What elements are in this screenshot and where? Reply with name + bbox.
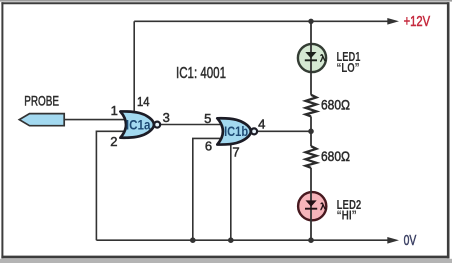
wire: LED/resistor chain lower segment [310, 168, 312, 240]
junction: IC1b output / resistor divider [308, 129, 314, 135]
NOR gate IC1b output bubble [251, 128, 257, 134]
wire: pin 14 vertical from top rail to IC1a [133, 21, 135, 113]
wire: 0V bottom rail [96, 239, 388, 241]
svg-text:“HI”: “HI” [337, 208, 357, 222]
svg-text:PROBE: PROBE [24, 93, 59, 109]
junction: LED chain / 0V rail [308, 237, 314, 243]
svg-text:4: 4 [258, 116, 265, 131]
svg-text:“LO”: “LO” [337, 61, 360, 75]
wire: IC1a pin 3 output to IC1b pin 5 [160, 124, 221, 126]
svg-text:1: 1 [111, 103, 118, 118]
LED2 diode triangle [306, 200, 317, 206]
probe input arrow [19, 114, 64, 126]
wire: probe to IC1a pin 1 [64, 119, 125, 121]
svg-text:680Ω: 680Ω [321, 148, 350, 164]
wire: IC1a pin 2 to 0V rail [96, 131, 124, 240]
NOR gate IC1b body [217, 118, 251, 144]
wire: IC1b pin 6 to 0V rail [193, 138, 221, 240]
svg-text:IC1: 4001: IC1: 4001 [176, 65, 226, 82]
svg-text:14: 14 [137, 94, 150, 109]
svg-text:2: 2 [110, 134, 117, 149]
wire: +12V top rail [134, 20, 388, 22]
wire: between R1 and R2 [310, 116, 312, 146]
svg-text:0V: 0V [404, 233, 417, 249]
svg-text:6: 6 [205, 138, 212, 153]
svg-text:3: 3 [163, 110, 170, 125]
LED1 cathode bar [305, 59, 317, 61]
+12V rail arrowhead [387, 18, 399, 25]
svg-text:5: 5 [204, 111, 211, 126]
wire: IC1b pin 4 output to LED/resistor junction [257, 130, 311, 132]
LED2 cathode bar [305, 208, 317, 210]
LED1 lambda symbol [321, 55, 326, 62]
junction: pin 6 wire / 0V rail [190, 237, 196, 243]
NOR gate IC1a output bubble [154, 122, 160, 128]
junction: pin 7 wire / 0V rail [228, 237, 234, 243]
resistor R2 680Ω zigzag [306, 146, 317, 168]
LED D2 (LED2) circle [298, 192, 326, 220]
wire: IC1b pin 7 to 0V rail [230, 142, 232, 240]
wire: LED/resistor chain upper segment [310, 21, 312, 95]
resistor R1 680Ω zigzag [306, 95, 317, 117]
LED2 lambda symbol [321, 203, 326, 210]
svg-text:IC1a: IC1a [126, 116, 151, 132]
svg-text:680Ω: 680Ω [321, 96, 350, 112]
junction: top rail / LED chain [308, 19, 313, 24]
LED1 diode triangle [305, 52, 316, 58]
svg-text:IC1b: IC1b [224, 123, 248, 139]
svg-text:+12V: +12V [404, 14, 431, 30]
svg-text:7: 7 [232, 144, 239, 159]
NOR gate IC1a body [120, 111, 153, 137]
LED D1 (LED1) circle [298, 44, 326, 72]
0V rail arrowhead [387, 237, 399, 244]
